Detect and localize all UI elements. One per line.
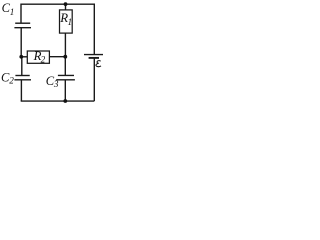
capacitor C1 top plate (15, 22, 30, 24)
wire R1 bottom lead from box to node B (64, 33, 66, 57)
label C2 (1, 71, 14, 86)
label R1 (59, 11, 72, 27)
node A junction dot (left wire / R2) (19, 55, 23, 59)
svg-text:2: 2 (9, 76, 14, 86)
wire top from left corner to right corner (21, 3, 94, 5)
wire right upper from top corner down to battery (93, 4, 95, 55)
label R2 (33, 49, 46, 64)
svg-text:3: 3 (53, 79, 59, 89)
capacitor C3 top plate (58, 74, 74, 76)
wire left lower from node A down to C2 (21, 57, 23, 76)
node D junction dot (bottom wire / C3) (63, 99, 67, 103)
wire C3 bottom lead down to node D on bottom wire (64, 80, 66, 101)
label C3 (46, 74, 59, 89)
label C1 (2, 1, 15, 17)
svg-text:1: 1 (10, 7, 15, 17)
capacitor C2 bottom plate (14, 79, 31, 81)
capacitor C3 bottom plate (56, 79, 75, 81)
wire bottom from left corner to right corner (21, 100, 95, 102)
resistor R2 box (27, 51, 49, 63)
wire C2 bottom lead to bottom-left corner (20, 80, 22, 101)
wire R2 left lead from node A to box (21, 56, 27, 58)
node B junction dot (R1 / R2 / C3) (63, 55, 67, 59)
svg-text:1: 1 (68, 17, 73, 27)
wire R2 right lead from box to node B (49, 56, 65, 58)
capacitor C2 top plate (15, 75, 29, 77)
node C junction dot (top wire / R1) (64, 2, 68, 6)
wire left middle from C1 down to node A (20, 28, 22, 57)
svg-text:2: 2 (41, 54, 46, 64)
wire C3 top lead from node B down to C3 (64, 57, 66, 76)
battery short plate (negative) (89, 57, 99, 59)
wire R1 top lead from top wire to box (65, 4, 67, 10)
wire left upper from top corner down to C1 (20, 4, 22, 24)
battery long plate (positive) (84, 54, 103, 56)
resistor R1 box (60, 10, 73, 33)
label EMF script-E (96, 61, 101, 67)
wire right lower from battery down to bottom corner (93, 58, 95, 101)
capacitor C1 bottom plate (14, 27, 31, 29)
